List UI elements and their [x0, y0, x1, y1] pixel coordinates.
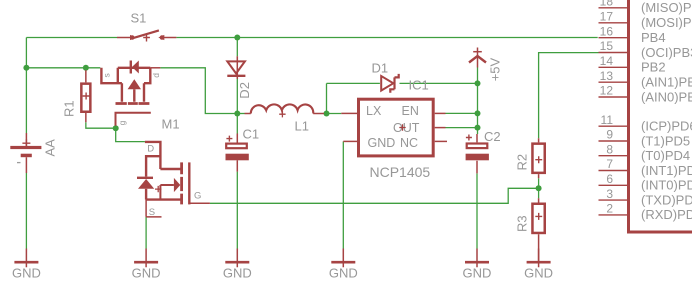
M1B drain path: [145, 142, 161, 177]
svg-text:3: 3: [606, 187, 613, 201]
svg-text:9: 9: [606, 128, 613, 142]
wire D1 cathode to +5V node: [400, 82, 478, 84]
MCU left edge: [627, 0, 630, 233]
wire R2 bottom to node: [538, 178, 540, 188]
svg-text:NCP1405: NCP1405: [370, 164, 431, 180]
pin 9 stub: [599, 140, 628, 142]
M1A bulk arrow: [128, 79, 141, 89]
svg-text:R3: R3: [515, 215, 530, 232]
M1B body diode triangle: [138, 179, 154, 189]
ground M1 source: [132, 249, 161, 281]
MCU pin stubs: [599, 8, 628, 215]
svg-text:NC: NC: [400, 136, 418, 150]
ground C2: [463, 249, 492, 281]
M1A drain stub: [150, 67, 160, 69]
svg-text:R1: R1: [62, 100, 77, 117]
battery + plate: [10, 146, 41, 149]
svg-text:EN: EN: [402, 104, 419, 118]
wire M1B source to GND: [145, 217, 147, 249]
svg-text:(ICP)PD6: (ICP)PD6: [641, 119, 692, 134]
pin 3 stub: [599, 199, 628, 201]
wire top rail right of S1 to MCU pin16: [176, 37, 597, 39]
svg-text:(TXD)PD1: (TXD)PD1: [641, 192, 692, 207]
op IC1 NCP1405 box: [359, 78, 434, 181]
wire node to R3 top: [538, 188, 540, 198]
battery plus mark: [22, 139, 30, 147]
svg-text:D2: D2: [237, 82, 252, 99]
node EN tap: [475, 110, 481, 116]
resistor R1: [62, 84, 91, 117]
svg-text:13: 13: [600, 69, 614, 83]
ground battery: [12, 249, 41, 281]
pin 12 stub: [599, 96, 628, 98]
wire L1 right to LX: [324, 113, 341, 115]
S1 lever: [133, 30, 159, 38]
inductor L1: [251, 104, 313, 133]
battery G1 AA: [10, 139, 57, 163]
M1A right drop: [144, 68, 150, 83]
pin 11 stub: [599, 125, 628, 127]
M1A left drop: [117, 68, 119, 83]
S1 left contact: [130, 35, 135, 40]
wire gate long: [210, 188, 539, 203]
svg-text:OUT: OUT: [393, 121, 420, 135]
wire battery- to GND: [25, 173, 27, 249]
pin 16 stub: [599, 37, 628, 39]
S1 right contact: [160, 35, 165, 40]
svg-text:+5V: +5V: [488, 57, 503, 81]
M1B bulk arrow: [174, 178, 180, 192]
svg-text:GND: GND: [463, 266, 492, 281]
wires-green: [26, 38, 598, 249]
L1 leads: [245, 113, 325, 115]
M1B source horizontal: [146, 198, 181, 200]
transistor M1 N-channel (lower): [137, 142, 210, 218]
pin 2 stub: [599, 214, 628, 216]
svg-text:D1: D1: [372, 61, 389, 76]
wire D2 bottom to node: [236, 79, 238, 114]
MCU bottom edge: [627, 231, 692, 234]
MCU IC (ATtiny2313 partial): [599, 0, 692, 233]
capacitor C2: [466, 129, 501, 160]
wire R1 bottom to gate node: [86, 122, 116, 128]
svg-text:(INT1)PD3: (INT1)PD3: [641, 163, 692, 178]
M1A body diode bar: [130, 61, 132, 74]
svg-text:11: 11: [601, 113, 614, 127]
svg-text:IC1: IC1: [409, 78, 429, 93]
M1B bulk arrow tail: [160, 185, 174, 200]
wire OUT: [446, 127, 478, 129]
wire gate node to M1B drain: [116, 128, 145, 141]
M1B channel bars: [180, 162, 183, 204]
M1B top contact: [160, 168, 181, 170]
svg-text:6: 6: [606, 172, 613, 186]
svg-text:AA: AA: [43, 139, 58, 157]
svg-text:S1: S1: [131, 11, 147, 26]
pin 15 stub: [599, 52, 628, 54]
svg-text:(RXD)PD0: (RXD)PD0: [641, 207, 692, 222]
svg-text:(AIN1)PB1: (AIN1)PB1: [641, 75, 692, 90]
M1A channel bars: [116, 102, 150, 105]
ground C1: [223, 249, 252, 281]
svg-text:C2: C2: [484, 129, 501, 144]
svg-text:(MOSI)PB5: (MOSI)PB5: [641, 15, 692, 30]
C1 stubs: [236, 134, 238, 172]
wire M1 drain to D2 node: [160, 68, 237, 114]
svg-text:GND: GND: [368, 136, 396, 150]
svg-text:GND: GND: [132, 266, 161, 281]
svg-text:s: s: [102, 73, 112, 77]
svg-text:G: G: [194, 191, 201, 202]
IC1 origin cross: [399, 124, 405, 130]
svg-text:12: 12: [600, 84, 614, 98]
IC1 OUT stub: [435, 127, 446, 129]
wire top rail left: [26, 37, 117, 39]
node battery rail2 tap: [23, 65, 29, 71]
ground symbols: [12, 249, 553, 281]
svg-text:8: 8: [606, 142, 613, 156]
svg-text:PB4: PB4: [641, 30, 666, 45]
M1A diode rail: [118, 67, 151, 69]
red thin pin stubs: [26, 38, 538, 263]
R2 stubs: [538, 138, 540, 178]
capacitor C1: [226, 127, 260, 161]
wire C1 bottom to GND: [236, 172, 238, 249]
node R1 top: [83, 65, 89, 71]
M1A body diode triangle: [132, 61, 139, 74]
switch S1 right lead: [164, 37, 176, 39]
svg-text:PB2: PB2: [641, 60, 666, 75]
switch S1: [130, 11, 164, 42]
svg-text:C1: C1: [243, 127, 260, 142]
svg-text:(T0)PD4: (T0)PD4: [641, 148, 690, 163]
pin 18 stub: [599, 7, 628, 9]
M1A gate line: [116, 113, 151, 126]
wire +5V vertical: [477, 68, 479, 135]
IC1 NC stub: [435, 140, 447, 142]
svg-text:(MISO)PB6: (MISO)PB6: [641, 0, 692, 15]
pin 8 stub: [599, 155, 628, 157]
M1B gate stub: [189, 202, 210, 204]
R3 stubs: [538, 198, 540, 262]
svg-text:L1: L1: [295, 119, 309, 134]
M1B gate bar: [188, 162, 190, 204]
schottky diode D1: [372, 61, 399, 93]
node OUT/C2 tap: [475, 125, 481, 131]
svg-text:g: g: [117, 120, 127, 125]
L1 origin cross: [279, 111, 285, 117]
svg-text:(INT0)PD2: (INT0)PD2: [641, 178, 692, 193]
wire IC1 GND down: [342, 141, 344, 248]
svg-text:2: 2: [606, 202, 613, 216]
resistor R2: [515, 144, 545, 173]
R1 stubs: [85, 70, 87, 122]
svg-text:(OCI)PB3: (OCI)PB3: [641, 45, 692, 60]
node R2/R3 divider: [536, 185, 542, 191]
svg-text:17: 17: [600, 10, 614, 24]
svg-text:(AIN0)PB0: (AIN0)PB0: [641, 89, 692, 104]
M1B body diode bar: [137, 177, 153, 179]
svg-text:GND: GND: [12, 266, 41, 281]
node L1/LX/D1: [324, 111, 330, 117]
wire LX node riser: [326, 83, 328, 113]
svg-text:M1: M1: [162, 117, 180, 132]
wire D2 top: [236, 38, 238, 57]
wire node to L1 left: [237, 113, 244, 115]
wire C2 bottom to GND: [476, 173, 478, 248]
M1B source stub: [146, 200, 161, 217]
supply +5V: [469, 48, 503, 82]
M1B origin cross: [155, 186, 161, 192]
MCU pin labels: [641, 0, 692, 222]
svg-text:d: d: [151, 73, 161, 78]
svg-text:16: 16: [600, 24, 614, 38]
svg-text:S: S: [149, 207, 155, 218]
node D2 top rail: [234, 35, 240, 41]
IC1 LX stub: [341, 112, 357, 114]
node R1 bottom / gate: [113, 125, 119, 131]
M1A contacts: [122, 83, 144, 102]
C2 stubs: [476, 134, 478, 173]
node D2/L1/C1: [234, 111, 240, 117]
M1B diode to source: [145, 189, 147, 200]
svg-text:18: 18: [600, 0, 614, 9]
wire riser to D1 anode: [327, 82, 380, 84]
svg-text:(T1)PD5: (T1)PD5: [641, 133, 690, 148]
svg-text:GND: GND: [524, 266, 553, 281]
battery - plate: [21, 154, 32, 158]
pin 13 stub: [599, 81, 628, 83]
wire node to C1: [236, 114, 238, 134]
svg-text:D: D: [147, 144, 154, 155]
M1A source elbow: [101, 68, 122, 83]
wire battery+ riser top: [25, 38, 27, 134]
resistor R3: [515, 204, 545, 233]
svg-text:15: 15: [600, 39, 614, 53]
D2 stubs: [236, 56, 238, 79]
pin 6 stub: [599, 184, 628, 186]
transistor M1 P-channel (upper): [101, 61, 179, 132]
battery top stub: [25, 133, 27, 146]
svg-text:LX: LX: [366, 104, 382, 118]
wire MCU pin15 to R2: [539, 53, 599, 139]
svg-text:14: 14: [600, 54, 614, 68]
diode D2: [227, 61, 252, 98]
svg-text:GND: GND: [223, 266, 252, 281]
switch S1 left lead: [117, 37, 130, 39]
svg-text:7: 7: [606, 157, 613, 171]
svg-text:R2: R2: [515, 154, 530, 171]
ground R3: [524, 249, 553, 281]
pin 14 stub: [599, 66, 628, 68]
MCU pin numbers: [600, 0, 614, 216]
wire EN: [446, 112, 478, 114]
IC1 EN stub: [435, 112, 446, 114]
pin 7 stub: [599, 170, 628, 172]
IC1 GND stub: [343, 140, 357, 142]
node D1/+5V: [475, 80, 481, 86]
pin 17 stub: [599, 22, 628, 24]
ground IC1: [329, 249, 358, 281]
wire rail2 battery to M1 source: [26, 67, 100, 69]
S1 actuator cross: [143, 34, 150, 41]
battery minus mark: [17, 162, 21, 164]
battery bottom stub: [25, 157, 27, 173]
svg-text:GND: GND: [329, 266, 358, 281]
